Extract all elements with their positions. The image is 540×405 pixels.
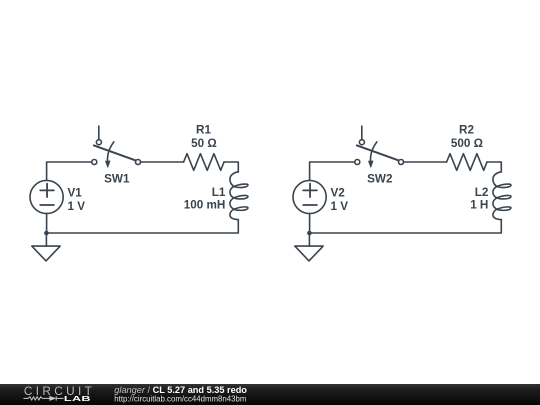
wire SW1 right terminal to R1 [141, 161, 184, 163]
svg-text:L1: L1 [212, 186, 226, 199]
switch SW1 [92, 126, 141, 168]
wire R2 to L2 top corner [487, 162, 501, 172]
svg-text:1 V: 1 V [68, 200, 86, 213]
wire junction to ground 2 [308, 233, 310, 246]
svg-text:50 Ω: 50 Ω [191, 137, 217, 150]
svg-text:1 V: 1 V [331, 200, 349, 213]
svg-text:http://circuitlab.com/cc44dmm8: http://circuitlab.com/cc44dmm8n43bm [114, 395, 247, 404]
svg-text:1 H: 1 H [470, 199, 488, 212]
wire L2 bottom to junction [309, 220, 501, 233]
CircuitLab logo waveform [23, 396, 63, 400]
wire V2 top to SW2 left terminal [310, 162, 355, 180]
switch SW2 [355, 126, 404, 168]
svg-text:R2: R2 [459, 123, 474, 136]
svg-text:R1: R1 [196, 123, 211, 136]
voltage source V2 [293, 180, 326, 213]
junction node at V2 bottom [307, 231, 312, 236]
wire V2 bottom to junction [309, 214, 311, 233]
wire V1 bottom to junction [46, 214, 48, 233]
wire L1 bottom to junction [46, 220, 238, 233]
resistor R2 [447, 154, 487, 171]
svg-text:V1: V1 [68, 187, 83, 200]
junction node at V1 bottom [44, 231, 49, 236]
svg-text:L2: L2 [475, 186, 489, 199]
voltage source V1 [30, 180, 63, 213]
svg-text:LAB: LAB [64, 395, 91, 403]
wire junction to ground [45, 233, 47, 246]
svg-text:SW1: SW1 [104, 172, 130, 185]
svg-text:100 mH: 100 mH [184, 199, 226, 212]
svg-text:SW2: SW2 [367, 172, 393, 185]
footer bar [0, 384, 540, 405]
inductor L2 [493, 172, 511, 220]
svg-text:V2: V2 [331, 187, 346, 200]
svg-text:500 Ω: 500 Ω [451, 137, 483, 150]
wire SW2 right terminal to R2 [404, 161, 447, 163]
ground [32, 246, 60, 261]
wire V1 top to SW1 left terminal [47, 162, 92, 180]
svg-text:glanger / CL 5.27 and 5.35 red: glanger / CL 5.27 and 5.35 redo [114, 385, 247, 395]
resistor R1 [184, 154, 224, 171]
wire R1 to L1 top corner [224, 162, 238, 172]
inductor L1 [230, 172, 248, 220]
ground 2 [295, 246, 323, 261]
